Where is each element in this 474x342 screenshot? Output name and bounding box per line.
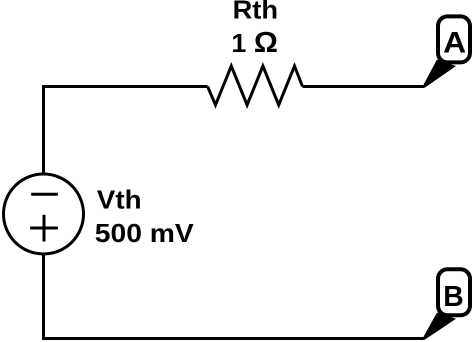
svg-text:1 Ω: 1 Ω — [231, 27, 278, 59]
svg-text:B: B — [443, 281, 464, 313]
svg-text:Vth: Vth — [97, 185, 142, 215]
svg-text:Rth: Rth — [233, 0, 279, 25]
svg-text:500 mV: 500 mV — [95, 218, 195, 248]
svg-text:A: A — [443, 27, 466, 60]
